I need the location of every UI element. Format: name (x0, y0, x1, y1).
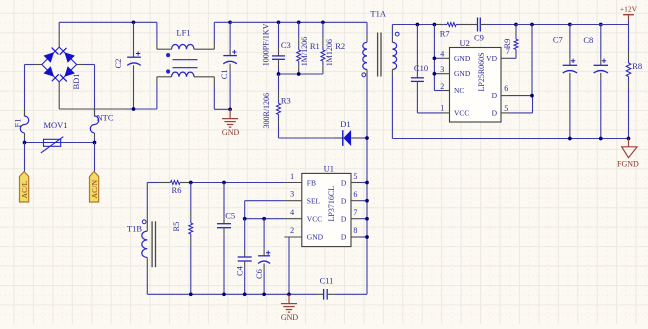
diode D1 (335, 119, 367, 146)
U2 pin 5 (501, 96, 533, 113)
resistor R8 (626, 25, 642, 139)
svg-text:1M1206: 1M1206 (325, 39, 334, 66)
U1 pin 8 (351, 226, 367, 237)
U1 pin 5 (351, 172, 367, 183)
wire: C11 to drain rail (336, 293, 368, 295)
svg-text:7: 7 (506, 47, 510, 56)
wire: top bus C1 to T1A (230, 21, 367, 23)
svg-text:C8: C8 (583, 35, 593, 45)
wire: R7 to C9 (460, 24, 470, 26)
wire: fuse to AC/L junction (24, 139, 26, 143)
svg-text:300R/1206: 300R/1206 (262, 93, 271, 129)
junction at C4/VCC/SEL (243, 217, 247, 221)
junction at pin7/rail (365, 217, 369, 221)
wire: MOV1 net (25, 142, 95, 144)
junction at C10 top (416, 23, 420, 27)
junction at GND symbol (287, 292, 291, 296)
junction at C7 top (568, 23, 572, 27)
U1 pin 3 SEL (284, 190, 301, 201)
wire: bridge right to NTC (77, 65, 95, 117)
junction at F1/AC-L (23, 141, 27, 145)
svg-text:VCC: VCC (307, 214, 322, 223)
svg-text:R6: R6 (172, 185, 182, 195)
svg-text:+12V: +12V (620, 5, 638, 14)
svg-text:R2: R2 (335, 41, 345, 51)
wire: bus R9 to C7 (516, 24, 570, 26)
wire: bridge bottom to lower-left bus (59, 82, 157, 109)
junction at C1 top (228, 20, 232, 24)
svg-text:8: 8 (353, 226, 357, 235)
junction at pin5/rail (365, 181, 369, 185)
svg-text:1000PF/1KV: 1000PF/1KV (262, 23, 271, 66)
svg-text:1: 1 (440, 104, 444, 113)
svg-text:C7: C7 (553, 35, 563, 45)
resistor R1 value 1M/1206 (297, 22, 320, 74)
svg-text:C2: C2 (113, 59, 123, 69)
junction at C4 bottom (243, 292, 247, 296)
wire: NTC to AC/N junction (94, 139, 96, 143)
U1 pin 2 GND (284, 226, 301, 237)
svg-text:2: 2 (290, 226, 294, 235)
junction at R9 top (514, 23, 518, 27)
svg-text:U2: U2 (460, 38, 470, 48)
svg-text:SEL: SEL (307, 196, 321, 205)
svg-text:3: 3 (440, 65, 444, 74)
svg-text:4: 4 (440, 50, 444, 59)
wire: right bus (417, 24, 436, 26)
junction at C1 bottom / GND (228, 107, 232, 111)
svg-text:C3: C3 (281, 40, 291, 50)
junction at pin3 (433, 72, 437, 76)
capacitor C8 (583, 25, 608, 139)
junction at pin4 (433, 56, 437, 60)
wire: SEL pin3 to C4 (245, 201, 285, 219)
svg-text:C5: C5 (225, 211, 235, 221)
port AC/N (90, 172, 100, 203)
IC U2 LP25R060S (450, 38, 502, 122)
capacitor C3 value 1000PF/1KV (262, 22, 291, 74)
svg-text:VD: VD (486, 54, 497, 63)
svg-text:GND: GND (222, 128, 240, 137)
junction at NTC/AC-N (93, 141, 97, 145)
bridge rectifier BD1 (42, 47, 81, 89)
junction at C2 top (132, 20, 136, 24)
wire: FB net (147, 182, 284, 184)
svg-text:D: D (492, 108, 498, 117)
svg-text:7: 7 (353, 208, 357, 217)
resistor R2 value 1M1206 (321, 22, 345, 74)
svg-text:1M/1206: 1M/1206 (300, 37, 309, 66)
junction at C3 top (277, 20, 281, 24)
wire: R3 to D1 (279, 137, 336, 139)
svg-text:2: 2 (440, 82, 444, 91)
svg-text:C11: C11 (320, 276, 334, 286)
capacitor C9 (470, 18, 489, 43)
U1 pin 1 FB (284, 172, 301, 183)
svg-text:LP25R060S: LP25R060S (477, 52, 486, 91)
junction at D1/drain rail (365, 136, 369, 140)
svg-text:T1B: T1B (127, 223, 142, 233)
svg-text:C10: C10 (414, 63, 428, 73)
capacitor C6 (254, 219, 271, 295)
svg-text:GND: GND (454, 54, 471, 63)
svg-text:LP3716CL: LP3716CL (327, 186, 336, 222)
svg-text:FB: FB (307, 178, 316, 187)
U2 pin 3 (434, 65, 449, 74)
capacitor C1 (219, 22, 237, 109)
junction at U2 pins5-6 riser (530, 23, 534, 27)
wire: T1A secondary top to right bus (392, 24, 417, 26)
svg-text:1: 1 (290, 172, 294, 181)
svg-text:R8: R8 (632, 61, 642, 71)
ground GND (primary bus) (222, 109, 240, 137)
U2 pin 6 (501, 84, 532, 96)
svg-text:C1: C1 (219, 69, 229, 79)
junction at pin8/rail (365, 235, 369, 239)
wire: bridge top to top bus (59, 22, 133, 47)
ground FGND (617, 139, 639, 169)
capacitor C4 (235, 219, 252, 295)
capacitor C10 (411, 25, 442, 113)
U2 pin 2 (434, 82, 449, 91)
svg-text:VCC: VCC (454, 108, 469, 117)
capacitor C7 (553, 25, 577, 139)
wire: junction to port AC/L (24, 143, 26, 172)
svg-text:D: D (341, 233, 347, 242)
svg-text:R1: R1 (310, 41, 320, 51)
svg-text:5: 5 (504, 104, 508, 113)
svg-text:GND: GND (307, 233, 324, 242)
resistor R5 (171, 183, 193, 295)
wire: FGND bus (392, 138, 628, 140)
wire: T1A secondary bottom to FGND bus (391, 77, 393, 139)
junction at C8 bottom (599, 137, 603, 141)
svg-text:R3: R3 (281, 95, 291, 105)
svg-text:R7: R7 (440, 29, 450, 39)
wire: bridge left to fuse F1 (25, 65, 42, 117)
U1 pin 6 (351, 190, 367, 201)
wire: R9 to U2 pin7 (509, 57, 516, 59)
junction at pin6/rail (365, 199, 369, 203)
svg-text:AC/L: AC/L (20, 181, 29, 199)
wire: top bus C2 to LF1 (134, 21, 157, 23)
svg-text:C6: C6 (254, 269, 264, 279)
svg-text:U1: U1 (324, 164, 334, 174)
svg-text:LF1: LF1 (176, 28, 190, 38)
wire: bus C7 to +12V corner (570, 24, 629, 26)
resistor R3 value 300R/1206 (262, 74, 291, 138)
resistor R6 (171, 181, 182, 196)
svg-text:AC/N: AC/N (90, 180, 99, 199)
svg-text:D: D (341, 214, 347, 223)
wire: U2 pin4 rail (433, 25, 435, 91)
svg-text:F1: F1 (13, 119, 23, 128)
junction at U2 pins 5-6 (530, 94, 534, 98)
wire: VCC line (245, 218, 285, 220)
resistor R9 (502, 25, 518, 59)
junction at R5 top (189, 181, 193, 185)
svg-text:NC: NC (454, 86, 464, 95)
U2 pin 4 (434, 50, 449, 59)
wire: junction to port AC/N (94, 143, 96, 172)
wire: U1 GND pin2 drop (288, 237, 290, 294)
wire: riser to U2 pins 5-6 (531, 25, 533, 96)
U1 pin 4 VCC (284, 208, 301, 219)
U1 pin 7 (351, 208, 367, 219)
svg-text:D1: D1 (340, 119, 350, 129)
junction at R8/FGND (627, 137, 631, 141)
junction at C6/VCC (262, 217, 266, 221)
junction at U2 pin4 rail (433, 23, 437, 27)
ground GND (bottom bus) (281, 294, 299, 322)
capacitor C5 (217, 183, 235, 295)
svg-text:C9: C9 (474, 33, 484, 43)
svg-text:BD1: BD1 (71, 73, 81, 89)
junction at C2 bottom (132, 107, 136, 111)
power +12V (620, 5, 638, 25)
wire: bottom GND bus (147, 293, 315, 295)
capacitor C2 (113, 22, 141, 109)
junction at C5 top (222, 181, 226, 185)
svg-text:FGND: FGND (617, 159, 639, 168)
svg-text:6: 6 (353, 190, 357, 199)
svg-text:D: D (492, 91, 498, 100)
svg-text:C4: C4 (235, 265, 245, 276)
svg-text:MOV1: MOV1 (43, 120, 67, 130)
svg-text:R5: R5 (171, 222, 181, 232)
svg-text:GND: GND (454, 69, 471, 78)
varistor MOV1 (41, 120, 68, 153)
junction at C6 bottom (262, 292, 266, 296)
svg-text:D: D (341, 178, 347, 187)
U2 pin 1 (440, 104, 449, 113)
svg-text:T1A: T1A (370, 9, 386, 19)
junction at R2 top (321, 20, 325, 24)
transformer aux winding T1B (127, 182, 156, 294)
resistor R7 (436, 23, 460, 39)
port AC/L (20, 172, 30, 203)
svg-text:4: 4 (290, 208, 294, 217)
common-mode choke LF1 (157, 22, 230, 109)
svg-text:D: D (341, 196, 347, 205)
junction at R1 bottom (297, 72, 301, 76)
wire: C9 to R9 (488, 24, 516, 26)
wire: T1A primary bottom / drain rail (366, 77, 368, 295)
wire: snubber bottom tie (279, 73, 323, 75)
svg-text:6: 6 (504, 84, 508, 93)
junction at R5 bottom (189, 292, 193, 296)
transformer T1A (362, 9, 399, 77)
junction at C8 top (599, 23, 603, 27)
junction at C5 bottom (222, 292, 226, 296)
junction at C7 bottom (568, 137, 572, 141)
IC U1 LP3716CL (302, 164, 351, 247)
svg-text:GND: GND (281, 313, 299, 322)
svg-text:5: 5 (353, 172, 357, 181)
svg-text:3: 3 (290, 190, 294, 199)
junction at C3/R3 (277, 72, 281, 76)
svg-text:NTC: NTC (97, 113, 114, 123)
capacitor C11 (316, 276, 336, 300)
fuse F1 (13, 109, 29, 139)
junction at R1 top (297, 20, 301, 24)
thermistor NTC (90, 109, 114, 139)
